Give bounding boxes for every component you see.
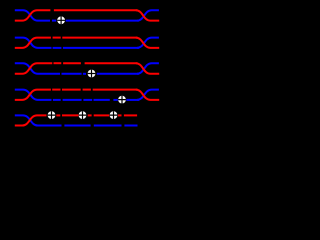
wire: row 1 blue segment xyxy=(52,20,56,22)
wire: row 1 red right crossing (descend) + lead-out xyxy=(136,10,159,20)
wire: row 4 red lead-in + left crossing (ascend) xyxy=(15,90,51,100)
wire: row 2 red segment xyxy=(53,37,61,39)
node marker M3: circled-cross (white circle quartered by black +) xyxy=(118,96,126,104)
wire: row 1 blue lead-in + left crossing (descend) xyxy=(15,10,50,20)
wire: row 1 blue segment xyxy=(66,20,140,22)
wire: row 3 red segment xyxy=(85,62,138,64)
wire: row 5 red segment xyxy=(94,114,110,116)
node marker M6: circled-cross (white circle quartered by black +) xyxy=(110,111,118,119)
wire: row 4 red segment xyxy=(93,89,138,91)
wire: row 4 blue right crossing (ascend) + lead-out xyxy=(137,90,159,100)
wire: row 3 red lead-in + left crossing (ascend) xyxy=(15,63,53,74)
wire: row 5 blue segment xyxy=(64,125,90,127)
wire: row 2 blue segment xyxy=(63,47,139,49)
node marker M1: circled-cross (white circle quartered by black +) xyxy=(57,16,65,24)
wire: row 4 blue segment xyxy=(94,99,110,101)
wire: row 4 blue segment xyxy=(113,99,117,101)
wire: row 2 blue right crossing (ascend) + lead-out xyxy=(137,38,159,48)
wire: row 2 blue lead-in + left crossing (descend) xyxy=(15,38,52,48)
wire: row 4 blue segment xyxy=(53,99,61,101)
wire: row 4 blue segment xyxy=(83,99,92,101)
wire: row 3 blue segment xyxy=(62,73,82,75)
wire: row 5 red lead-in + left crossing (ascend) xyxy=(15,115,47,125)
wire: row 3 blue right crossing (ascend) + lead-out xyxy=(137,63,159,74)
wire: row 5 blue lead-in + left crossing (descend) xyxy=(15,115,62,125)
wire: row 4 red segment xyxy=(83,89,91,91)
wire: row 5 red segment xyxy=(88,114,92,116)
wire: row 2 red lead-in + left crossing (ascend) xyxy=(15,38,51,48)
wire: row 4 red segment xyxy=(52,89,60,91)
wire: row 4 blue lead-in + left crossing (descend) xyxy=(15,90,52,100)
wire: row 1 blue right crossing (ascend) + lead-out xyxy=(137,10,159,20)
wire: row 5 red segment xyxy=(118,114,122,116)
wire: row 1 red lead-in + left crossing (ascend) xyxy=(15,10,51,20)
wire: row 3 red segment xyxy=(63,62,81,64)
wire: row 2 blue segment xyxy=(53,47,62,49)
wire: row 2 red segment xyxy=(62,37,137,39)
wire: row 5 red segment xyxy=(62,114,79,116)
wire: row 3 red segment xyxy=(54,62,62,64)
wire: row 4 red segment xyxy=(62,89,81,91)
node marker M2: circled-cross (white circle quartered by black +) xyxy=(88,70,96,78)
wire: row 4 red right crossing (descend) + lead-out xyxy=(136,90,159,100)
wire: row 4 blue segment xyxy=(63,99,82,101)
node marker M5: circled-cross (white circle quartered by black +) xyxy=(79,111,87,119)
wire: row 3 blue segment xyxy=(97,73,139,75)
wire: row 3 red right crossing (descend) + lead-out xyxy=(136,63,159,74)
wire: row 5 red segment xyxy=(124,114,137,116)
wire: row 4 blue segment xyxy=(126,99,139,101)
wire: row 1 red segment xyxy=(54,9,138,11)
wire: row 3 blue segment xyxy=(83,73,86,75)
node marker M4: circled-cross (white circle quartered by black +) xyxy=(48,111,56,119)
wire: row 3 blue lead-in + left crossing (descend) xyxy=(15,63,60,74)
wire: row 5 blue segment xyxy=(124,125,137,127)
wire: row 5 blue segment xyxy=(94,125,122,127)
wire: row 5 red segment xyxy=(56,114,60,116)
wire: row 2 red right crossing (descend) + lead-out xyxy=(136,38,159,48)
